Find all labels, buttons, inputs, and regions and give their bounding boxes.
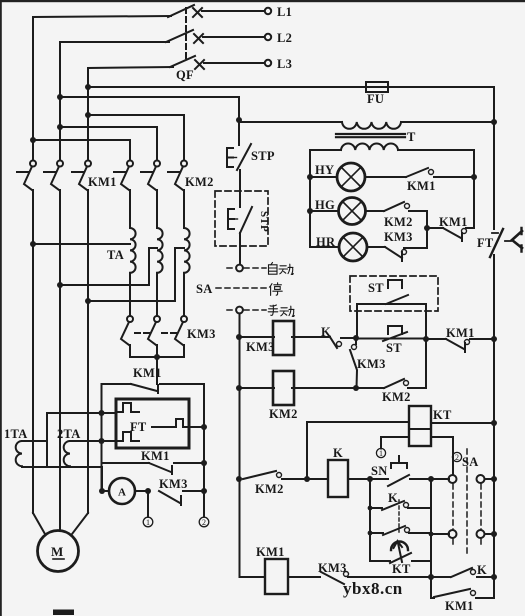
svg-text:ST: ST bbox=[368, 281, 384, 295]
svg-text:KM1: KM1 bbox=[133, 366, 162, 380]
svg-text:L2: L2 bbox=[277, 31, 292, 45]
svg-text:2TA: 2TA bbox=[57, 427, 81, 441]
svg-text:K: K bbox=[321, 325, 331, 339]
svg-text:KM3: KM3 bbox=[357, 357, 386, 371]
svg-text:ybx8.cn: ybx8.cn bbox=[343, 579, 403, 598]
svg-text:FT: FT bbox=[130, 420, 147, 434]
svg-text:HY: HY bbox=[315, 163, 334, 177]
svg-text:FT: FT bbox=[477, 236, 494, 250]
svg-text:T: T bbox=[407, 130, 416, 144]
svg-text:A: A bbox=[118, 487, 126, 499]
svg-text:1TA: 1TA bbox=[4, 427, 28, 441]
svg-text:KM1: KM1 bbox=[407, 179, 436, 193]
svg-text:KM3: KM3 bbox=[318, 561, 347, 575]
svg-text:2: 2 bbox=[202, 518, 206, 527]
svg-text:KM3: KM3 bbox=[384, 230, 413, 244]
svg-text:KM2: KM2 bbox=[382, 390, 411, 404]
svg-text:STP: STP bbox=[258, 211, 270, 232]
svg-text:KT: KT bbox=[392, 562, 411, 576]
svg-text:TA: TA bbox=[107, 248, 124, 262]
svg-text:SN: SN bbox=[371, 464, 388, 478]
svg-text:1: 1 bbox=[146, 518, 150, 527]
svg-text:SA: SA bbox=[196, 282, 213, 296]
svg-text:KM1: KM1 bbox=[256, 545, 285, 559]
svg-text:M: M bbox=[51, 544, 64, 559]
svg-text:K: K bbox=[388, 491, 398, 505]
svg-text:K: K bbox=[477, 563, 487, 577]
svg-text:QF: QF bbox=[176, 68, 194, 82]
svg-text:KM1: KM1 bbox=[88, 175, 117, 189]
svg-text:1: 1 bbox=[379, 449, 383, 458]
svg-text:K: K bbox=[333, 446, 343, 460]
svg-text:KM2: KM2 bbox=[384, 215, 413, 229]
svg-text:2: 2 bbox=[455, 453, 459, 462]
svg-text:KM3: KM3 bbox=[187, 327, 216, 341]
svg-text:KM2: KM2 bbox=[269, 407, 298, 421]
svg-text:KM1: KM1 bbox=[141, 449, 170, 463]
svg-text:KM2: KM2 bbox=[185, 175, 214, 189]
svg-text:L1: L1 bbox=[277, 5, 292, 19]
svg-text:SA: SA bbox=[462, 455, 479, 469]
svg-text:KT: KT bbox=[433, 408, 452, 422]
svg-text:ST: ST bbox=[386, 341, 402, 355]
svg-text:STP: STP bbox=[251, 149, 275, 163]
svg-text:KM3: KM3 bbox=[246, 340, 275, 354]
svg-text:FU: FU bbox=[367, 92, 384, 106]
svg-text:KM2: KM2 bbox=[255, 482, 284, 496]
svg-text:KM3: KM3 bbox=[159, 477, 188, 491]
svg-text:HG: HG bbox=[315, 198, 335, 212]
svg-text:KM1: KM1 bbox=[445, 599, 474, 613]
svg-text:L3: L3 bbox=[277, 57, 292, 71]
svg-text:HR: HR bbox=[316, 235, 336, 249]
svg-text:KM1: KM1 bbox=[439, 215, 468, 229]
svg-text:KM1: KM1 bbox=[446, 326, 475, 340]
